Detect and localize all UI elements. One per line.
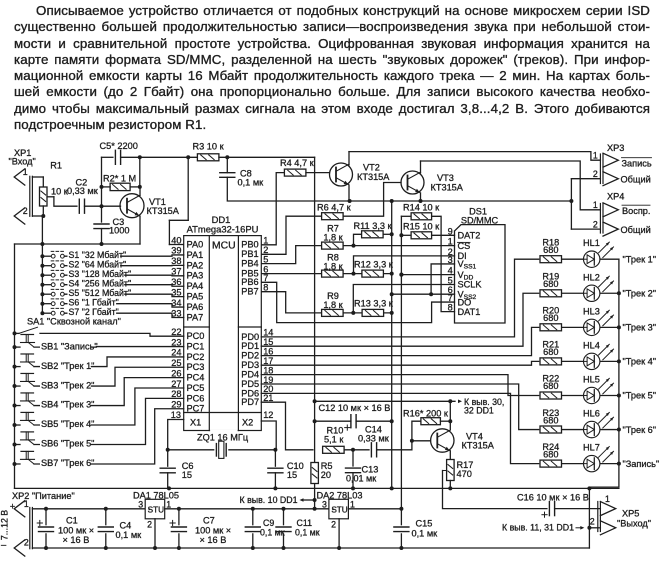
svg-text:0,1 мк: 0,1 мк	[116, 530, 143, 540]
svg-text:13: 13	[171, 410, 181, 420]
svg-text:33: 33	[171, 308, 181, 318]
svg-text:40: 40	[171, 235, 181, 245]
svg-text:PB0: PB0	[241, 240, 258, 250]
svg-text:DAT1: DAT1	[458, 307, 481, 317]
svg-text:PC0: PC0	[187, 331, 205, 341]
svg-text:PC2: PC2	[187, 352, 205, 362]
svg-text:R13 3,3 к: R13 3,3 к	[354, 299, 394, 309]
svg-text:"Трек 5": "Трек 5"	[623, 391, 657, 401]
svg-text:PA0: PA0	[187, 239, 204, 249]
svg-text:PC6: PC6	[187, 393, 205, 403]
svg-text:R6 4,7 к: R6 4,7 к	[317, 203, 352, 213]
svg-text:34: 34	[171, 298, 181, 308]
svg-text:S4 "256 Мбайт": S4 "256 Мбайт"	[69, 279, 132, 289]
svg-text:23: 23	[171, 337, 181, 347]
svg-text:29: 29	[171, 400, 181, 410]
svg-text:SD/MMC: SD/MMC	[461, 215, 499, 225]
svg-text:HL6: HL6	[583, 409, 600, 419]
svg-text:1: 1	[263, 236, 268, 246]
svg-text:SA1 "Сквозной канал": SA1 "Сквозной канал"	[27, 317, 121, 327]
svg-text:24: 24	[171, 348, 181, 358]
svg-text:ATmega32-16PU: ATmega32-16PU	[187, 223, 259, 234]
svg-text:680: 680	[543, 279, 558, 289]
svg-text:PA5: PA5	[187, 292, 204, 302]
svg-text:SB7 "Трек 6": SB7 "Трек 6"	[41, 458, 94, 468]
svg-text:PA6: PA6	[187, 302, 204, 312]
svg-text:ZQ1 16 МГц: ZQ1 16 МГц	[197, 432, 249, 442]
svg-text:2: 2	[331, 520, 336, 530]
svg-text:DO: DO	[458, 297, 472, 307]
svg-text:"Трек 3": "Трек 3"	[623, 323, 657, 333]
svg-text:PC5: PC5	[187, 383, 205, 393]
svg-text:680: 680	[543, 381, 558, 391]
svg-text:1000: 1000	[109, 225, 129, 235]
svg-text:STU: STU	[331, 505, 347, 514]
svg-text:C4: C4	[120, 521, 132, 531]
svg-text:× 16 В: × 16 В	[63, 535, 90, 545]
svg-text:КТ315А: КТ315А	[431, 183, 464, 193]
svg-text:PA3: PA3	[187, 271, 204, 281]
svg-text:Общий: Общий	[621, 225, 651, 235]
svg-text:"Выход": "Выход"	[617, 519, 651, 529]
svg-text:"Вход": "Вход"	[9, 156, 36, 166]
svg-text:HL3: HL3	[583, 306, 600, 316]
svg-text:PA7: PA7	[187, 312, 204, 322]
svg-text:R1: R1	[50, 160, 62, 170]
svg-text:3: 3	[138, 499, 143, 509]
svg-text:1: 1	[350, 499, 355, 509]
svg-text:PC7: PC7	[187, 404, 205, 414]
svg-text:HL2: HL2	[583, 272, 600, 282]
svg-text:38: 38	[171, 256, 181, 266]
svg-text:PB4: PB4	[241, 259, 258, 269]
svg-text:PC4: PC4	[187, 373, 205, 383]
svg-text:КТ315А: КТ315А	[357, 172, 390, 182]
svg-text:× 16 В: × 16 В	[200, 535, 227, 545]
svg-text:16: 16	[263, 346, 273, 356]
svg-text:"Трек 1": "Трек 1"	[623, 254, 657, 264]
svg-text:R2* 1 М: R2* 1 М	[103, 174, 136, 184]
svg-text:2: 2	[24, 538, 29, 548]
svg-text:–: –	[1, 539, 7, 550]
svg-text:22: 22	[171, 327, 181, 337]
svg-text:HL1: HL1	[583, 238, 600, 248]
svg-text:SB3 "Трек 2": SB3 "Трек 2"	[41, 380, 94, 390]
svg-text:PA2: PA2	[187, 260, 204, 270]
svg-text:R12 3,3 к: R12 3,3 к	[354, 260, 394, 270]
svg-text:"Трек 2": "Трек 2"	[623, 288, 657, 298]
svg-text:470: 470	[457, 469, 472, 479]
svg-text:39: 39	[171, 246, 181, 256]
svg-text:1: 1	[24, 499, 29, 509]
svg-text:PC1: PC1	[187, 341, 205, 351]
svg-text:100 мк ×: 100 мк ×	[58, 526, 94, 536]
svg-text:1: 1	[448, 237, 453, 247]
svg-text:VT3: VT3	[437, 173, 454, 183]
svg-text:К выв. 11, 31 DD1: К выв. 11, 31 DD1	[502, 523, 574, 533]
svg-text:1: 1	[593, 151, 598, 161]
svg-text:680: 680	[543, 449, 558, 459]
svg-text:SB5 "Трек 4": SB5 "Трек 4"	[41, 419, 94, 429]
svg-text:5: 5	[263, 254, 268, 264]
svg-text:+: +	[10, 501, 16, 512]
svg-text:PB7: PB7	[241, 287, 258, 297]
svg-text:1,8 к: 1,8 к	[323, 261, 343, 271]
svg-text:R14 10 к: R14 10 к	[403, 203, 440, 213]
svg-text:26: 26	[171, 368, 181, 378]
svg-text:15: 15	[182, 470, 192, 480]
svg-text:S1 "32 Мбайт": S1 "32 Мбайт"	[69, 250, 127, 260]
svg-text:680: 680	[543, 245, 558, 255]
svg-text:28: 28	[171, 389, 181, 399]
svg-text:1: 1	[593, 200, 598, 210]
svg-text:4: 4	[448, 266, 453, 276]
svg-text:КТ315А: КТ315А	[462, 440, 495, 450]
svg-text:0,33 мк: 0,33 мк	[358, 434, 390, 444]
svg-text:SB2 "Трек 1": SB2 "Трек 1"	[41, 361, 94, 371]
svg-text:5,1 к: 5,1 к	[324, 434, 344, 444]
svg-text:Запись: Запись	[622, 158, 652, 168]
svg-text:PA4: PA4	[187, 281, 204, 291]
svg-text:DA1 78L05: DA1 78L05	[133, 490, 179, 500]
svg-text:X1: X1	[190, 418, 201, 428]
svg-text:X2: X2	[242, 418, 253, 428]
svg-text:R4 4,7 к: R4 4,7 к	[280, 158, 315, 168]
svg-text:R11 3,3 к: R11 3,3 к	[354, 221, 393, 231]
svg-text:1,8 к: 1,8 к	[323, 233, 343, 243]
svg-text:PD7: PD7	[241, 397, 259, 407]
svg-text:"Трек 6": "Трек 6"	[623, 425, 657, 435]
svg-text:7...12 В: 7...12 В	[0, 510, 10, 540]
svg-text:"Запись": "Запись"	[623, 459, 660, 469]
svg-text:680: 680	[543, 415, 558, 425]
svg-text:XP4: XP4	[607, 192, 624, 202]
svg-text:0,33 мк: 0,33 мк	[67, 186, 99, 196]
svg-text:32 DD1: 32 DD1	[464, 406, 494, 416]
svg-text:12: 12	[263, 410, 273, 420]
svg-text:15: 15	[287, 470, 297, 480]
svg-text:R3 10 к: R3 10 к	[193, 142, 225, 152]
svg-text:0,1 мк: 0,1 мк	[260, 528, 285, 538]
svg-text:SB6 "Трек 5": SB6 "Трек 5"	[41, 439, 94, 449]
svg-text:0,1 мк: 0,1 мк	[295, 528, 320, 538]
svg-text:C11: C11	[297, 518, 313, 528]
svg-text:3: 3	[448, 255, 453, 265]
svg-text:7: 7	[448, 293, 453, 303]
svg-text:1: 1	[23, 167, 28, 177]
svg-text:C16 10 мк × 16 В: C16 10 мк × 16 В	[517, 492, 589, 502]
svg-text:5: 5	[448, 276, 453, 286]
svg-text:1: 1	[166, 499, 171, 509]
svg-text:Воспр.: Воспр.	[622, 206, 650, 216]
svg-text:MCU: MCU	[212, 241, 236, 252]
svg-text:2: 2	[590, 517, 595, 527]
svg-text:DAT2: DAT2	[458, 231, 481, 241]
svg-text:C5* 2200: C5* 2200	[100, 141, 138, 151]
svg-text:2: 2	[593, 169, 598, 179]
svg-text:PA1: PA1	[187, 250, 204, 260]
svg-text:XP5: XP5	[622, 509, 639, 519]
svg-text:R16* 200 к: R16* 200 к	[403, 408, 449, 418]
svg-text:20: 20	[321, 470, 331, 480]
svg-text:PD2: PD2	[241, 351, 259, 361]
svg-text:VT2: VT2	[363, 163, 380, 173]
svg-text:0,01 мк: 0,01 мк	[346, 474, 376, 484]
svg-text:STU: STU	[148, 505, 164, 514]
svg-text:3: 3	[322, 499, 327, 509]
svg-text:1: 1	[605, 494, 610, 504]
svg-text:КТ315А: КТ315А	[147, 206, 180, 216]
svg-text:PC3: PC3	[187, 362, 205, 372]
svg-text:8: 8	[263, 283, 268, 293]
svg-text:HL7: HL7	[583, 443, 600, 453]
svg-text:C15: C15	[416, 519, 433, 529]
svg-text:S2 "64 Мбайт": S2 "64 Мбайт"	[69, 260, 127, 270]
svg-text:C12 10 мк × 16 В: C12 10 мк × 16 В	[319, 403, 391, 413]
svg-text:35: 35	[171, 287, 181, 297]
svg-text:0,1 мк: 0,1 мк	[238, 177, 265, 187]
svg-text:SCLK: SCLK	[458, 280, 483, 290]
svg-text:C9: C9	[263, 518, 274, 528]
svg-text:9: 9	[448, 226, 453, 236]
svg-text:21: 21	[263, 393, 273, 403]
svg-text:680: 680	[543, 347, 558, 357]
svg-text:S6 "1 Гбайт": S6 "1 Гбайт"	[69, 298, 119, 308]
svg-text:DA2 78L03: DA2 78L03	[317, 490, 363, 500]
svg-text:8: 8	[448, 303, 453, 313]
svg-text:HL5: HL5	[583, 374, 600, 384]
svg-text:2: 2	[147, 520, 152, 530]
svg-text:C1: C1	[66, 516, 78, 526]
svg-text:HL4: HL4	[583, 340, 600, 350]
svg-text:К выв. 10 DD1: К выв. 10 DD1	[240, 495, 298, 505]
svg-text:37: 37	[171, 267, 181, 277]
svg-text:1,8 к: 1,8 к	[323, 300, 343, 310]
svg-text:SB1 "Запись": SB1 "Запись"	[41, 341, 98, 351]
svg-text:25: 25	[171, 358, 181, 368]
svg-text:S5 "512 Мбайт": S5 "512 Мбайт"	[69, 288, 132, 298]
svg-text:Общий: Общий	[621, 175, 651, 185]
svg-text:C7: C7	[203, 516, 215, 526]
svg-text:XP3: XP3	[607, 143, 624, 153]
svg-text:2: 2	[23, 206, 28, 216]
svg-text:"Трек 4": "Трек 4"	[623, 357, 657, 367]
svg-text:XP2 "Питание": XP2 "Питание"	[12, 491, 75, 501]
svg-text:R15 10 к: R15 10 к	[403, 222, 440, 232]
svg-text:SB4 "Трек 3": SB4 "Трек 3"	[41, 400, 94, 410]
svg-text:0,1 мк: 0,1 мк	[412, 529, 439, 539]
svg-text:36: 36	[171, 277, 181, 287]
svg-text:100 мк ×: 100 мк ×	[195, 526, 231, 536]
svg-text:27: 27	[171, 379, 181, 389]
svg-text:680: 680	[543, 313, 558, 323]
svg-text:S3 "128 Мбайт": S3 "128 Мбайт"	[69, 269, 132, 279]
svg-text:2: 2	[593, 219, 598, 229]
